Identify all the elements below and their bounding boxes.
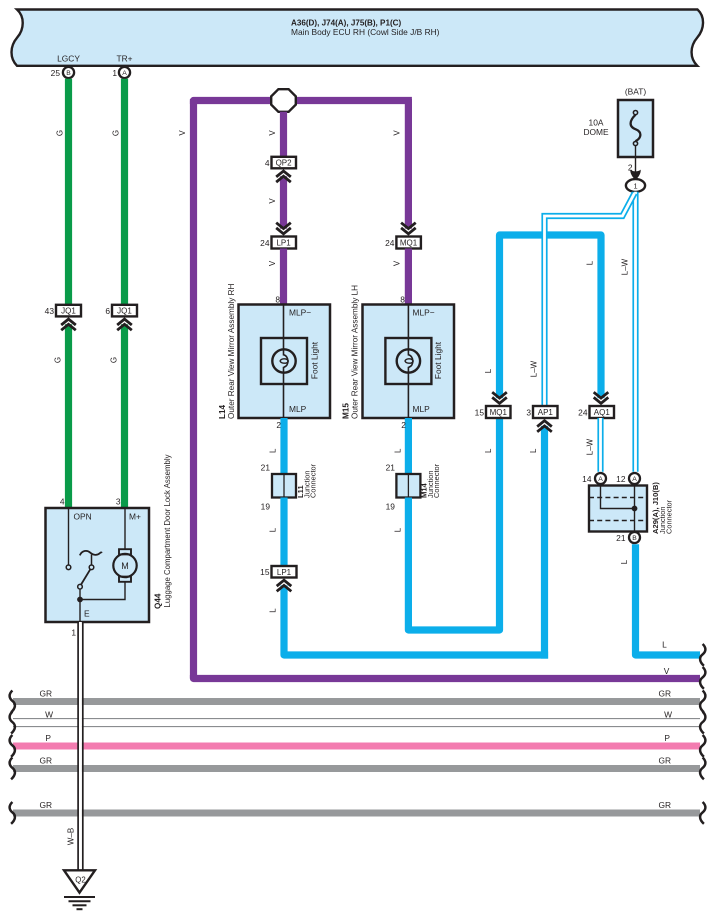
M15 rotated label (342, 285, 360, 419)
svg-text:M15: M15 (342, 403, 351, 419)
left squiggle W (10, 712, 15, 734)
wire P pink (13, 733, 700, 746)
svg-text:L: L (484, 368, 493, 373)
M15 foot light bulb (385, 338, 442, 384)
node oval 1 (626, 179, 645, 192)
wire V purple branch M15 (393, 99, 416, 234)
wire L cyan L14 pin2 to L11 (268, 418, 284, 474)
svg-text:L14: L14 (218, 404, 227, 419)
svg-text:MLP−: MLP− (289, 308, 311, 318)
svg-text:W: W (45, 709, 53, 719)
svg-text:GR: GR (658, 800, 671, 810)
banner title text (57, 19, 440, 64)
svg-text:W: W (664, 709, 672, 719)
left squiggle GR1 (10, 691, 15, 713)
wire L cyan AP1 down to bus (529, 426, 545, 659)
svg-text:V: V (268, 130, 277, 136)
svg-text:JQ1: JQ1 (61, 307, 76, 316)
pin 12 A (616, 473, 640, 484)
svg-text:M+: M+ (129, 512, 141, 522)
wire V purple bottom horizontal (194, 675, 701, 679)
wire G green LGCY upper (56, 79, 69, 305)
svg-text:GR: GR (39, 755, 52, 765)
left squiggle P (10, 735, 15, 757)
wire L-W thin main from oval 1 (620, 192, 635, 472)
svg-text:QP2: QP2 (276, 159, 293, 168)
svg-text:M: M (121, 561, 129, 571)
svg-text:G: G (110, 357, 119, 363)
wire L cyan M15 pin2 to M14 (393, 418, 408, 474)
svg-text:MQ1: MQ1 (490, 408, 508, 417)
Q44 luggage door lock box (46, 497, 150, 638)
svg-text:L–W: L–W (530, 360, 539, 377)
svg-text:GR: GR (39, 800, 52, 810)
svg-text:JQ1: JQ1 (117, 307, 132, 316)
svg-text:L: L (268, 527, 277, 532)
left squiggle GR2 (10, 758, 15, 780)
right squiggle GR2 (700, 758, 705, 780)
svg-text:1: 1 (71, 628, 76, 638)
svg-text:1: 1 (112, 68, 117, 78)
svg-text:Connector: Connector (665, 499, 674, 534)
Q44 rotated label (154, 454, 173, 609)
svg-text:TR+: TR+ (116, 54, 132, 64)
svg-text:L: L (586, 260, 595, 265)
svg-text:24: 24 (578, 407, 588, 417)
connector QP2 4 (265, 157, 296, 182)
svg-text:V: V (268, 198, 277, 204)
svg-text:Foot Light: Foot Light (433, 341, 443, 379)
right squiggle GR3 (700, 802, 705, 824)
svg-text:AQ1: AQ1 (594, 408, 611, 417)
svg-text:(BAT): (BAT) (625, 87, 646, 97)
junction connector A29 J10 (589, 482, 674, 534)
svg-text:24: 24 (260, 238, 270, 248)
svg-text:GR: GR (658, 755, 671, 765)
wire V purple LP1 to L14 (268, 249, 284, 305)
wire L cyan LP1 down to bus (268, 585, 548, 655)
wire G green TR+ upper (112, 79, 125, 305)
wire V purple octagon to QP2 (268, 112, 284, 157)
junction connector M14 (386, 463, 441, 512)
pin 14 A (582, 473, 606, 484)
wire V purple left vertical (178, 99, 194, 679)
svg-text:19: 19 (261, 502, 271, 512)
connector JQ1 6 (105, 305, 137, 330)
wire G green TR+ lower (110, 324, 125, 508)
svg-text:L: L (529, 448, 538, 453)
fuse 10A DOME (583, 87, 653, 158)
L14 rotated label (218, 283, 236, 419)
connector MQ1 24 (385, 237, 421, 249)
wire L-W thin AQ1 to pin14 (586, 418, 601, 472)
svg-text:Luggage Compartment Door Lock: Luggage Compartment Door Lock Assembly (163, 454, 172, 607)
svg-text:Connector: Connector (432, 463, 441, 498)
svg-text:L: L (393, 527, 402, 532)
wire L cyan pin B to right edge (620, 544, 700, 655)
svg-text:Outer Rear View Mirror Assembl: Outer Rear View Mirror Assembly LH (351, 285, 360, 419)
svg-text:L: L (268, 608, 277, 613)
svg-text:2: 2 (401, 420, 406, 430)
svg-text:8: 8 (275, 294, 280, 304)
svg-text:A: A (122, 70, 127, 77)
right squiggle P (700, 735, 705, 757)
ECU banner A36/J74/J75/P1 (12, 10, 704, 66)
connector MQ1 15 (475, 392, 511, 418)
node octagon junction (271, 89, 296, 112)
svg-text:8: 8 (400, 294, 405, 304)
svg-text:B: B (632, 535, 637, 542)
svg-text:G: G (54, 357, 63, 363)
svg-text:21: 21 (616, 533, 626, 543)
svg-text:W–B: W–B (67, 828, 76, 845)
wire L cyan M14 down U to MQ1 (393, 418, 499, 630)
wire G green LGCY lower (54, 324, 69, 508)
svg-text:4: 4 (60, 497, 65, 507)
ground Q2 (64, 870, 95, 909)
svg-text:L: L (662, 640, 667, 650)
label V right edge (664, 666, 670, 676)
svg-text:L–W: L–W (620, 258, 629, 275)
wire W white (13, 709, 700, 726)
svg-text:L–W: L–W (586, 438, 595, 455)
svg-text:15: 15 (475, 407, 485, 417)
svg-text:Q44: Q44 (154, 593, 163, 609)
svg-text:25: 25 (51, 68, 61, 78)
svg-text:A: A (632, 476, 637, 483)
wire GR gray 1 (13, 688, 700, 701)
svg-text:MLP−: MLP− (413, 308, 435, 318)
right squiggle W (700, 712, 705, 734)
svg-text:15: 15 (260, 567, 270, 577)
svg-text:MLP: MLP (413, 404, 431, 414)
svg-text:LP1: LP1 (277, 568, 292, 577)
svg-text:GR: GR (658, 688, 671, 698)
wire L cyan MQ1 up top bar to AQ1 (484, 235, 601, 398)
svg-text:L: L (484, 448, 493, 453)
svg-text:Foot Light: Foot Light (309, 341, 319, 379)
svg-text:V: V (268, 260, 277, 266)
svg-text:A: A (598, 476, 603, 483)
svg-text:14: 14 (582, 474, 592, 484)
wire W-B to ground (67, 622, 83, 870)
svg-text:4: 4 (265, 158, 270, 168)
svg-text:DOME: DOME (583, 127, 609, 137)
connector JQ1 43 (45, 305, 81, 330)
svg-text:G: G (112, 130, 121, 136)
pin 21 B (616, 532, 640, 543)
wire V purple MQ1 to M15 (393, 249, 409, 305)
wire V purple top horizontal (194, 101, 412, 105)
svg-text:Connector: Connector (308, 463, 317, 498)
svg-text:3: 3 (526, 407, 531, 417)
svg-text:B: B (66, 70, 71, 77)
svg-text:43: 43 (45, 306, 55, 316)
svg-text:V: V (393, 260, 402, 266)
svg-text:6: 6 (105, 306, 110, 316)
svg-text:Outer Rear View Mirror Assembl: Outer Rear View Mirror Assembly RH (227, 283, 236, 419)
svg-text:L: L (268, 448, 277, 453)
pin 25 B (51, 67, 74, 78)
connector LP1 15 (260, 566, 296, 591)
svg-text:AP1: AP1 (538, 408, 554, 417)
connector LP1 24 (260, 237, 296, 249)
connector AP1 3 (526, 406, 557, 432)
wire V purple QP2 to LP1 (268, 176, 291, 234)
svg-text:LP1: LP1 (276, 239, 291, 248)
right squiggle L (700, 644, 705, 666)
svg-text:2: 2 (276, 420, 281, 430)
svg-text:12: 12 (616, 474, 626, 484)
wire GR gray 2 (13, 755, 700, 768)
svg-text:L: L (620, 559, 629, 564)
wire GR gray 3 (13, 800, 700, 813)
svg-text:MQ1: MQ1 (400, 239, 418, 248)
svg-text:P: P (45, 733, 51, 743)
component L14 mirror RH box (239, 305, 331, 419)
right squiggle V (700, 667, 705, 689)
svg-text:21: 21 (386, 463, 396, 473)
svg-text:V: V (664, 666, 670, 676)
svg-text:21: 21 (261, 463, 271, 473)
svg-text:LGCY: LGCY (57, 54, 80, 64)
svg-text:Q2: Q2 (75, 876, 85, 885)
svg-text:G: G (56, 130, 65, 136)
Q44 motor M (113, 508, 136, 582)
wire L cyan L11 to LP1 (268, 498, 284, 567)
L14 foot light bulb (261, 338, 319, 384)
svg-text:E: E (84, 609, 90, 619)
svg-text:GR: GR (39, 688, 52, 698)
svg-text:1: 1 (633, 182, 637, 191)
left squiggle GR3 (10, 802, 15, 824)
right squiggle GR1 (700, 691, 705, 713)
svg-text:3: 3 (116, 497, 121, 507)
junction connector L11 (261, 463, 318, 512)
svg-text:Main Body ECU RH (Cowl Side J/: Main Body ECU RH (Cowl Side J/B RH) (291, 27, 440, 37)
component M15 mirror LH box (363, 305, 455, 419)
svg-text:24: 24 (385, 238, 395, 248)
svg-text:P: P (664, 733, 670, 743)
wire L-W thin branch to AP1 (530, 193, 635, 406)
svg-text:V: V (393, 130, 402, 136)
svg-text:L: L (393, 448, 402, 453)
svg-text:19: 19 (386, 502, 396, 512)
Q44 switch contacts (66, 508, 125, 622)
svg-text:V: V (178, 130, 187, 136)
svg-text:OPN: OPN (74, 512, 92, 522)
svg-text:MLP: MLP (289, 404, 307, 414)
pin 1 A (112, 67, 130, 78)
svg-text:10A: 10A (589, 118, 604, 128)
connector AQ1 24 (578, 392, 614, 418)
fuse pin 2 arrow (628, 157, 641, 180)
